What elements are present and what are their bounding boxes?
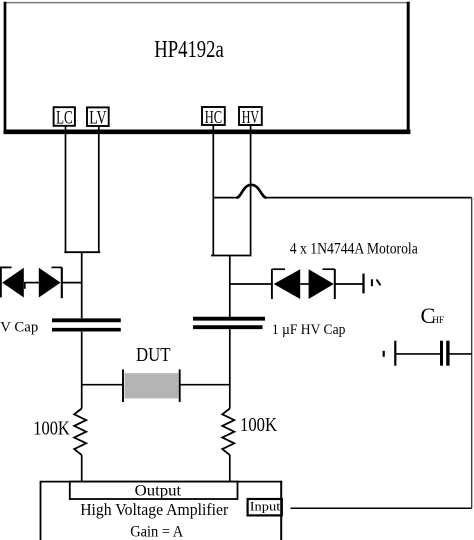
svg-text:HF: HF <box>432 316 444 326</box>
svg-text:V Cap: V Cap <box>0 319 38 335</box>
svg-text:LC: LC <box>56 109 73 129</box>
svg-text:LV: LV <box>89 109 107 129</box>
svg-text:4 x 1N4744A Motorola: 4 x 1N4744A Motorola <box>290 240 418 257</box>
svg-text:DUT: DUT <box>136 344 171 366</box>
svg-text:100K: 100K <box>240 415 277 436</box>
svg-text:Output: Output <box>135 483 182 500</box>
svg-text:High Voltage Amplifier: High Voltage Amplifier <box>80 500 228 519</box>
svg-text:100K: 100K <box>33 419 70 440</box>
svg-text:Input: Input <box>250 499 281 513</box>
svg-text:1 µF HV Cap: 1 µF HV Cap <box>272 322 346 338</box>
svg-text:HV: HV <box>242 107 259 127</box>
svg-text:HP4192a: HP4192a <box>154 36 224 63</box>
svg-text:Gain = A: Gain = A <box>130 523 183 540</box>
svg-text:HC: HC <box>205 107 222 127</box>
